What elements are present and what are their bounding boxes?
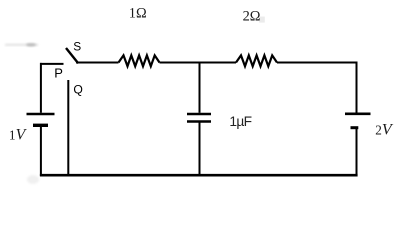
- bottom wire: [40, 174, 358, 177]
- wire left vertical top (battery V1 top lead): [40, 63, 42, 113]
- svg-text:S: S: [73, 40, 81, 54]
- switch contact Q lead vertical: [67, 80, 69, 175]
- svg-text:2V: 2V: [375, 122, 394, 139]
- svg-text:1V: 1V: [9, 126, 28, 143]
- smudge artifact bottom-left: [27, 175, 39, 184]
- wire top from switch to resistor R1: [76, 62, 119, 64]
- resistor R2 zigzag 2-ohm: [236, 55, 277, 66]
- capacitor C1 bottom plate: [187, 120, 211, 123]
- wire top-left horizontal to switch contact P: [40, 63, 64, 65]
- wire right vertical top (battery V2 top lead): [356, 62, 358, 113]
- svg-text:Q: Q: [73, 83, 82, 97]
- node junction capacitor top: [199, 63, 201, 113]
- battery V1 short plate: [33, 124, 48, 127]
- svg-text:1Ω: 1Ω: [129, 5, 147, 21]
- svg-text:2Ω: 2Ω: [243, 9, 261, 25]
- switch S blade (open): [66, 48, 78, 63]
- battery V1 long plate: [27, 113, 55, 116]
- battery V2 long plate: [345, 113, 371, 116]
- wire right vertical bottom (battery V2 bottom lead): [356, 129, 358, 176]
- wire top right to corner: [277, 62, 358, 64]
- smudge artifact after 2-ohm label: [259, 17, 265, 23]
- capacitor C1 top plate: [187, 113, 211, 116]
- capacitor C1 bottom lead wire: [199, 123, 201, 176]
- svg-text:1µF: 1µF: [229, 114, 251, 129]
- smudge artifact top-left streak: [5, 44, 38, 46]
- resistor R1 zigzag 1-ohm: [119, 55, 160, 66]
- battery V2 short plate: [351, 126, 359, 129]
- wire left vertical bottom (battery V1 bottom lead): [40, 127, 42, 176]
- svg-text:P: P: [54, 65, 63, 80]
- wire top middle between R1 and R2: [160, 62, 237, 64]
